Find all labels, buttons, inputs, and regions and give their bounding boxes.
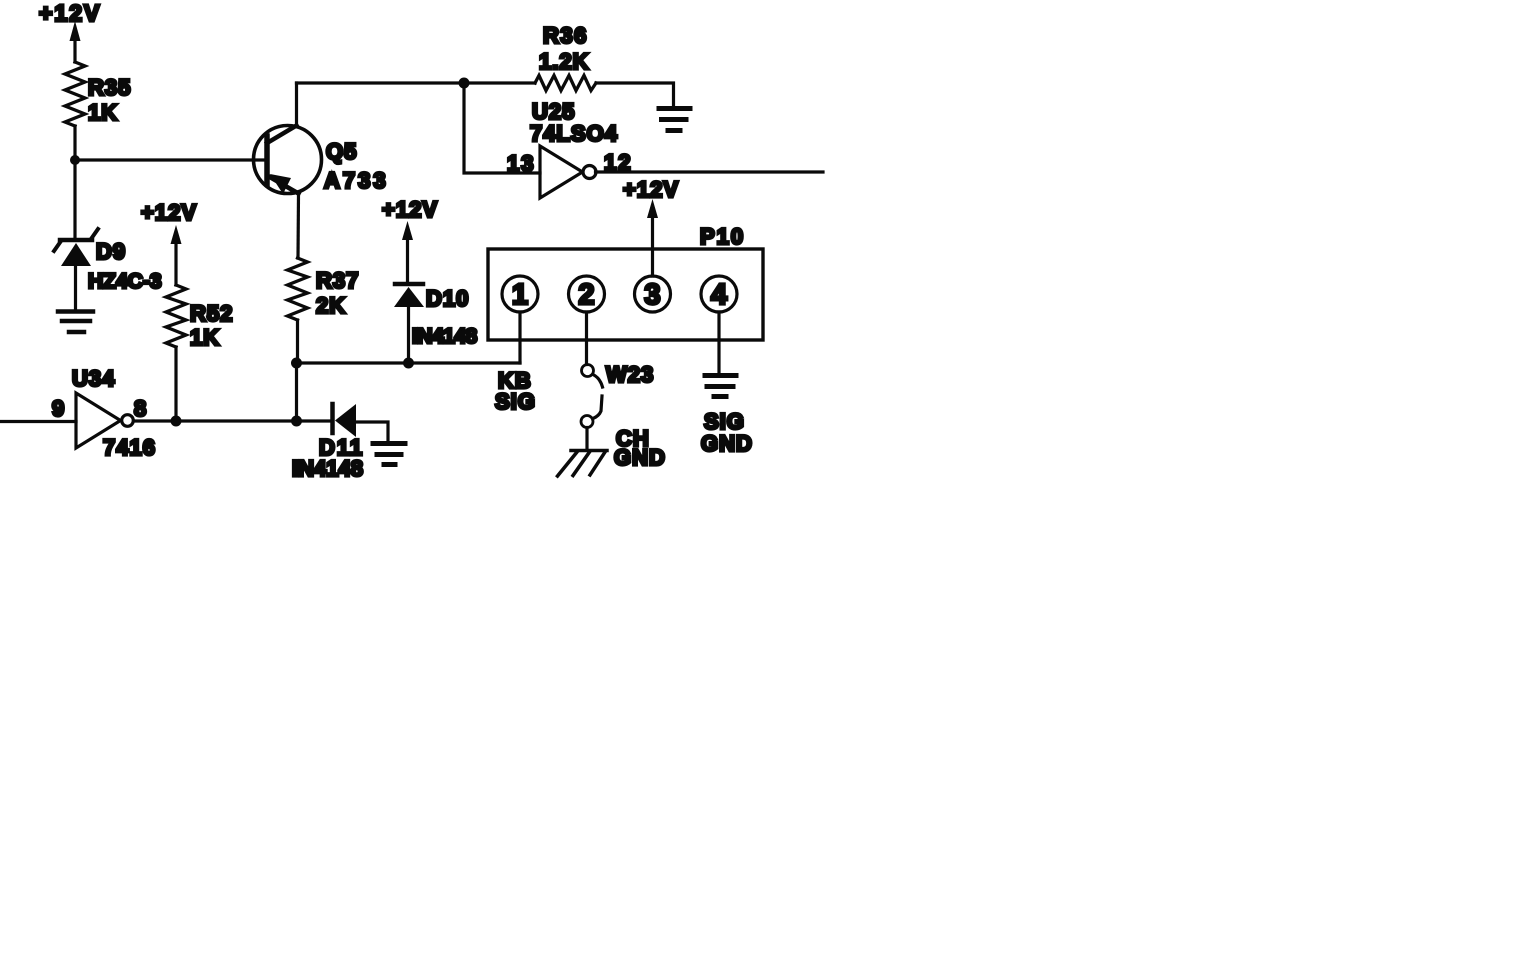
- svg-text:P10: P10: [700, 224, 745, 249]
- ground (right of D11): [373, 444, 405, 465]
- node emitter net junction: [291, 416, 302, 427]
- svg-text:D9: D9: [96, 239, 126, 264]
- svg-text:74LSO4: 74LSO4: [530, 121, 618, 146]
- svg-text:+12V: +12V: [623, 177, 679, 202]
- svg-text:1.2K: 1.2K: [539, 49, 589, 74]
- svg-text:R37: R37: [316, 268, 359, 293]
- svg-text:8: 8: [134, 396, 146, 421]
- wire U34 output to D11: [134, 419, 332, 422]
- power +12V (feeds D10): [382, 197, 438, 282]
- svg-text:SIG: SIG: [495, 389, 536, 414]
- wire U25 output: [596, 170, 824, 173]
- wire R35 bottom to D9: [73, 126, 76, 238]
- svg-text:IN4148: IN4148: [412, 325, 478, 348]
- svg-text:7416: 7416: [103, 435, 156, 460]
- op-amp U25 74LSO4 inverter: [507, 99, 632, 198]
- power +12V (top left, feeds R35): [39, 0, 101, 62]
- resistor R52: [166, 285, 233, 350]
- wire KB SIG horizontal: [297, 361, 521, 364]
- diode D11 IN4148: [292, 404, 364, 481]
- power +12V (feeds P10 pin 3): [623, 177, 679, 276]
- node base junction: [70, 155, 80, 165]
- wire D11 to ground: [356, 422, 388, 441]
- svg-text:+12V: +12V: [141, 200, 197, 225]
- svg-text:R36: R36: [543, 23, 588, 48]
- svg-text:A733: A733: [324, 168, 389, 193]
- ground SIG GND (below pin 4): [701, 376, 753, 457]
- svg-text:4: 4: [711, 279, 727, 311]
- svg-text:1: 1: [512, 279, 528, 311]
- wire junction down to U25 input: [464, 83, 540, 173]
- svg-text:13: 13: [507, 151, 535, 176]
- wire D9 to ground: [74, 266, 77, 309]
- transistor Q5 A733: [254, 126, 389, 195]
- svg-text:2K: 2K: [316, 293, 346, 318]
- pin 4: [701, 276, 737, 312]
- svg-text:+12V: +12V: [39, 0, 101, 26]
- svg-text:GND: GND: [701, 431, 753, 456]
- wire emitter node vertical: [295, 363, 298, 421]
- svg-text:D10: D10: [426, 286, 469, 311]
- wire pin 1 drop: [518, 312, 521, 363]
- resistor R35: [65, 62, 131, 126]
- jumper W23: [581, 362, 654, 428]
- svg-text:U34: U34: [72, 366, 115, 391]
- svg-text:+12V: +12V: [382, 197, 438, 222]
- svg-text:1K: 1K: [190, 325, 220, 350]
- inverter U34 7416: [52, 366, 156, 460]
- wire pin 2 drop: [585, 312, 588, 365]
- wire Q5 emitter down: [296, 194, 300, 259]
- svg-text:GND: GND: [614, 445, 666, 470]
- svg-text:W23: W23: [606, 362, 654, 387]
- wire D10 anode down: [407, 307, 410, 363]
- svg-text:9: 9: [52, 396, 64, 421]
- pin 2: [569, 276, 605, 312]
- wire R36 to ground: [596, 83, 674, 106]
- svg-text:HZ4C-3: HZ4C-3: [88, 270, 162, 293]
- svg-text:Q5: Q5: [326, 139, 357, 164]
- wire pin 4 drop: [717, 312, 720, 373]
- chassis ground CH GND: [558, 426, 666, 476]
- node D10 anode junction: [403, 358, 414, 369]
- resistor R36 1.2K: [535, 23, 596, 91]
- svg-text:R52: R52: [190, 301, 233, 326]
- svg-text:IN4148: IN4148: [292, 456, 363, 481]
- ground (below D9): [58, 312, 93, 333]
- resistor R37: [288, 258, 360, 320]
- pin 3: [635, 276, 671, 312]
- power +12V (feeds R52): [141, 200, 197, 285]
- connector P10 outline: [488, 224, 763, 340]
- svg-text:2: 2: [578, 279, 594, 311]
- diode D10 IN4148: [394, 284, 478, 348]
- wire R52 bottom to signal wire: [174, 347, 177, 421]
- node R52 junction: [171, 416, 182, 427]
- wire collector rail (top horizontal): [297, 81, 536, 84]
- svg-text:1K: 1K: [88, 100, 118, 125]
- node collector/R36 junction: [459, 78, 470, 89]
- svg-text:R35: R35: [88, 75, 131, 100]
- wire U34 input: [0, 420, 76, 423]
- ground (right of R36): [659, 109, 690, 131]
- zener diode D9 HZ4C-3: [54, 229, 162, 293]
- pin 1: [502, 276, 538, 312]
- node R37/D10 junction: [291, 358, 302, 369]
- wire base node to Q5 base: [75, 158, 265, 161]
- wire R37 bottom: [296, 320, 299, 363]
- wire Q5 collector up: [295, 83, 298, 126]
- wire W23 to chassis ground: [585, 428, 588, 451]
- svg-text:3: 3: [644, 279, 660, 311]
